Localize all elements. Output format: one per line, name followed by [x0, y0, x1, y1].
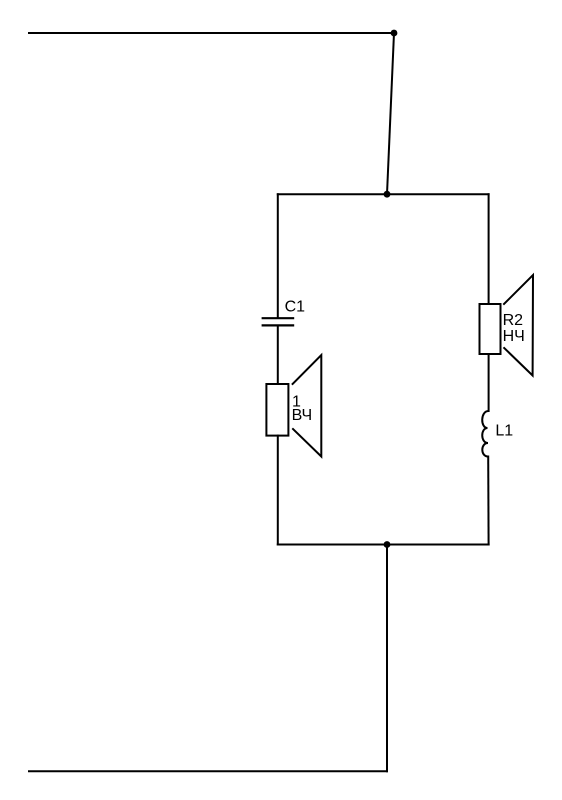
wire top horizontal input — [29, 32, 394, 34]
wire slanted feed — [387, 33, 394, 194]
svg-text:ВЧ: ВЧ — [292, 407, 313, 424]
svg-text:НЧ: НЧ — [503, 328, 525, 345]
inductor L1 — [482, 411, 488, 457]
wire left branch upper — [277, 194, 279, 317]
wire loop bottom edge — [278, 544, 489, 546]
node loop bottom junction — [384, 541, 391, 548]
speaker BA1 tweeter rectangle — [266, 384, 288, 436]
wire left branch lower — [277, 436, 279, 545]
node top junction — [391, 30, 398, 37]
speaker BA2 cone — [504, 275, 533, 376]
node loop top junction — [384, 191, 391, 198]
svg-text:R2: R2 — [503, 312, 524, 329]
wire bottom vertical return — [386, 545, 388, 772]
capacitor C1 — [263, 318, 293, 325]
wire loop top edge — [278, 193, 489, 195]
speaker BA1 cone — [293, 355, 322, 457]
wire left branch middle — [277, 326, 279, 384]
wire bottom horizontal return — [29, 770, 387, 772]
wire right branch middle — [488, 354, 490, 411]
speaker BA2 woofer rectangle — [480, 304, 501, 354]
wire right branch lower — [487, 457, 489, 545]
wire right branch upper — [488, 194, 490, 304]
svg-text:L1: L1 — [495, 423, 513, 440]
svg-text:C1: C1 — [285, 298, 306, 315]
